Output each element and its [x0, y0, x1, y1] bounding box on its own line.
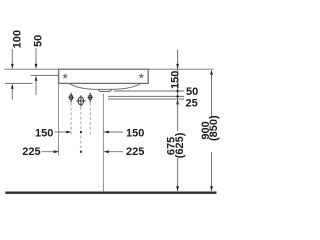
dimension line 50 (top left): [35, 48, 37, 64]
centre line of basin down to floor: [102, 94, 104, 191]
drain connection symbol middle: [76, 95, 85, 106]
svg-text:50: 50: [33, 35, 45, 47]
arrow down to floor 675: [176, 186, 179, 191]
wire rim extension line left: [4, 68, 58, 70]
dimension line 900 (850) far right: [211, 75, 213, 119]
svg-text:225: 225: [22, 146, 40, 158]
svg-text:100: 100: [11, 30, 23, 48]
dimension row 150-150: [55, 131, 71, 133]
wire rim extension line right: [148, 68, 213, 70]
chain dimension line right (150/50/25/675): [177, 50, 179, 131]
wire 100-level line left: [5, 82, 33, 84]
dimension row 225-225: [42, 151, 59, 153]
wire supply height line 2 right: [108, 95, 184, 97]
svg-text:50: 50: [186, 86, 198, 98]
supply connection symbol left: [68, 93, 74, 103]
washbasin body rectangle: [59, 69, 149, 83]
dashed extension line left supply: [70, 103, 72, 135]
junction dot row1 drain line: [80, 131, 82, 133]
floor line: [5, 192, 216, 194]
svg-text:150: 150: [170, 71, 182, 89]
svg-text:150: 150: [126, 128, 144, 140]
wire drain height line 1 right: [114, 90, 184, 92]
supply connection symbol right: [87, 93, 93, 103]
dashed extension line drain: [80, 107, 82, 154]
svg-text:25: 25: [186, 97, 198, 109]
junction dot chain line2: [176, 95, 178, 97]
extension line basin left edge down: [58, 84, 60, 156]
wire supply height line 3 right: [108, 98, 184, 100]
wire 50-level line left: [31, 74, 59, 76]
dimension line 100 (top left): [11, 49, 13, 65]
dashed extension line right supply: [89, 103, 91, 135]
star symbol right (tap hole marking): [138, 73, 144, 79]
washbasin bowl curve: [69, 84, 140, 90]
junction dot chain line1: [176, 90, 178, 92]
svg-text:150: 150: [35, 128, 53, 140]
arrow up to line3: [176, 99, 179, 104]
star symbol left (tap hole marking): [62, 73, 68, 79]
svg-text:225: 225: [126, 146, 144, 158]
svg-text:(850): (850): [208, 115, 220, 141]
junction dot row2 drain line: [80, 151, 82, 153]
svg-text:(625): (625): [174, 132, 186, 158]
drain trapezoid under bowl: [98, 89, 112, 91]
